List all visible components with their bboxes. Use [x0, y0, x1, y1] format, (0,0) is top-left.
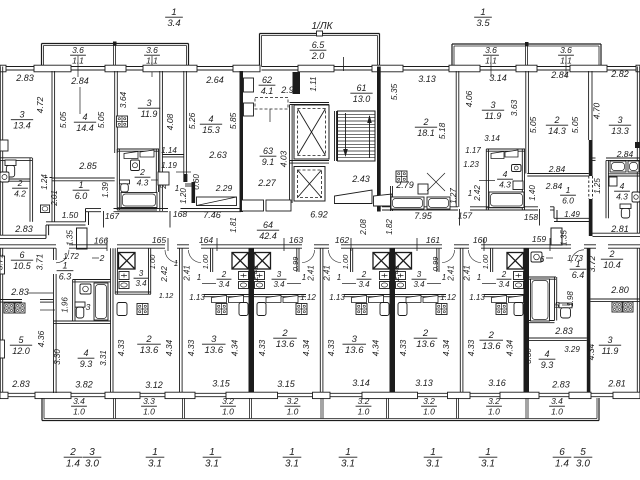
svg-text:2.43: 2.43: [351, 174, 370, 184]
svg-text:4.33: 4.33: [466, 339, 476, 356]
svg-text:3.64: 3.64: [118, 91, 128, 108]
svg-text:7.46: 7.46: [203, 210, 221, 220]
svg-text:3.4: 3.4: [135, 279, 147, 288]
svg-text:7.95: 7.95: [414, 211, 433, 221]
svg-text:6.4: 6.4: [572, 270, 585, 280]
svg-text:11.9: 11.9: [485, 111, 502, 121]
svg-text:4: 4: [83, 348, 88, 358]
svg-text:1: 1: [78, 180, 83, 190]
svg-text:4.06: 4.06: [464, 90, 474, 107]
svg-text:2: 2: [608, 249, 614, 259]
svg-text:1.00: 1.00: [481, 254, 490, 269]
svg-text:5.85: 5.85: [228, 112, 238, 129]
svg-text:3: 3: [352, 334, 358, 345]
svg-text:161: 161: [426, 235, 440, 245]
svg-text:1.11: 1.11: [309, 77, 318, 92]
svg-text:2.84: 2.84: [616, 149, 634, 159]
svg-text:61: 61: [356, 83, 366, 93]
svg-text:2.41: 2.41: [463, 265, 472, 282]
svg-text:3.0: 3.0: [576, 459, 590, 470]
svg-text:2.41: 2.41: [323, 265, 332, 282]
svg-text:6.0: 6.0: [75, 191, 88, 201]
svg-text:2: 2: [422, 117, 428, 127]
svg-text:4.08: 4.08: [165, 113, 175, 130]
svg-text:2.83: 2.83: [15, 73, 34, 83]
svg-text:2: 2: [99, 253, 105, 263]
svg-text:0.99: 0.99: [291, 256, 300, 271]
svg-text:2.08: 2.08: [359, 219, 368, 236]
svg-text:2.83: 2.83: [554, 326, 573, 336]
svg-text:3: 3: [139, 269, 144, 278]
svg-text:5: 5: [555, 300, 560, 310]
svg-text:1.24: 1.24: [40, 174, 49, 190]
svg-text:3.3: 3.3: [143, 396, 155, 406]
svg-text:3.2: 3.2: [488, 396, 500, 406]
svg-text:1: 1: [566, 185, 571, 195]
svg-text:14.3: 14.3: [548, 126, 566, 136]
svg-text:3.13: 3.13: [415, 378, 433, 388]
svg-text:4.70: 4.70: [592, 102, 602, 119]
svg-text:1.23: 1.23: [463, 160, 479, 169]
svg-text:3.4: 3.4: [73, 396, 85, 406]
svg-text:1: 1: [174, 259, 178, 268]
svg-text:1.13: 1.13: [329, 293, 345, 302]
svg-text:3: 3: [86, 302, 91, 312]
svg-text:3: 3: [607, 335, 612, 345]
svg-text:6.3: 6.3: [59, 271, 72, 281]
svg-text:2.41: 2.41: [307, 265, 316, 282]
svg-text:3.4: 3.4: [218, 280, 230, 289]
svg-text:3.14: 3.14: [484, 134, 500, 143]
svg-text:2.42: 2.42: [251, 265, 260, 282]
svg-text:62: 62: [262, 75, 272, 85]
svg-text:1.0: 1.0: [73, 406, 85, 416]
svg-text:3: 3: [490, 100, 495, 110]
svg-text:5.18: 5.18: [437, 122, 447, 139]
svg-text:1: 1: [480, 7, 485, 18]
svg-text:2.83: 2.83: [14, 224, 33, 234]
svg-text:1.12: 1.12: [159, 291, 174, 300]
svg-text:6: 6: [540, 254, 545, 264]
svg-text:2: 2: [17, 178, 23, 188]
svg-text:4: 4: [544, 349, 549, 359]
svg-text:3.16: 3.16: [488, 378, 506, 388]
svg-text:3.2: 3.2: [222, 396, 234, 406]
svg-text:1: 1: [430, 447, 436, 458]
svg-text:2.84: 2.84: [550, 70, 569, 80]
svg-text:3.29: 3.29: [564, 345, 580, 354]
svg-text:11.9: 11.9: [602, 346, 619, 356]
svg-text:1: 1: [575, 259, 580, 269]
svg-text:3.1: 3.1: [148, 459, 162, 470]
svg-text:1.17: 1.17: [465, 146, 481, 155]
svg-text:3.6: 3.6: [485, 45, 497, 55]
svg-text:4.03: 4.03: [279, 150, 289, 167]
svg-text:3.0: 3.0: [85, 459, 99, 470]
svg-text:4: 4: [82, 112, 87, 122]
svg-text:1.19: 1.19: [161, 161, 177, 170]
svg-text:4.3: 4.3: [616, 191, 628, 201]
svg-text:3.30: 3.30: [53, 349, 62, 365]
svg-text:5.05: 5.05: [58, 111, 68, 128]
svg-text:6.92: 6.92: [310, 210, 328, 220]
svg-text:2.41: 2.41: [183, 265, 192, 282]
svg-text:3.14: 3.14: [489, 73, 507, 83]
svg-text:158: 158: [524, 212, 538, 222]
svg-text:2.80: 2.80: [610, 285, 629, 295]
svg-text:13.3: 13.3: [611, 126, 629, 136]
svg-text:4.33: 4.33: [116, 339, 126, 356]
svg-text:3.4: 3.4: [358, 280, 370, 289]
svg-text:2.41: 2.41: [447, 265, 456, 282]
svg-text:3.4: 3.4: [498, 280, 510, 289]
svg-text:3.4: 3.4: [551, 396, 563, 406]
svg-text:4: 4: [620, 181, 625, 191]
svg-text:4: 4: [208, 114, 213, 124]
svg-text:2.29: 2.29: [215, 183, 233, 193]
svg-text:0.99: 0.99: [431, 256, 440, 271]
svg-text:3.6: 3.6: [560, 45, 572, 55]
svg-text:4.34: 4.34: [505, 339, 515, 356]
svg-text:12.0: 12.0: [12, 346, 30, 356]
svg-text:11.9: 11.9: [141, 109, 158, 119]
svg-text:9.3: 9.3: [541, 360, 554, 370]
svg-text:3.12: 3.12: [145, 380, 163, 390]
svg-text:1.0: 1.0: [287, 406, 299, 416]
svg-text:3.2: 3.2: [287, 396, 299, 406]
svg-text:4: 4: [503, 169, 508, 179]
svg-text:4.36: 4.36: [36, 330, 46, 347]
svg-text:4.33: 4.33: [257, 339, 267, 356]
svg-text:3: 3: [211, 334, 217, 345]
svg-text:6: 6: [19, 250, 24, 260]
svg-text:5.05: 5.05: [570, 116, 580, 133]
svg-text:3.5: 3.5: [476, 18, 490, 29]
svg-text:1.4: 1.4: [555, 459, 569, 470]
svg-text:13.0: 13.0: [353, 94, 371, 104]
svg-text:5.05: 5.05: [528, 116, 538, 133]
svg-text:1: 1: [209, 447, 215, 458]
svg-text:2.42: 2.42: [392, 265, 401, 282]
svg-text:1: 1: [468, 189, 472, 198]
svg-text:9.1: 9.1: [262, 157, 275, 167]
svg-text:4.33: 4.33: [326, 339, 336, 356]
svg-text:2.27: 2.27: [257, 178, 277, 188]
svg-text:163: 163: [289, 235, 303, 245]
svg-text:3.72: 3.72: [587, 255, 597, 272]
svg-text:1: 1: [289, 447, 295, 458]
svg-text:160: 160: [473, 235, 487, 245]
svg-text:4.33: 4.33: [398, 339, 408, 356]
svg-text:13.4: 13.4: [13, 120, 31, 130]
svg-text:1.00: 1.00: [341, 254, 350, 269]
svg-text:168: 168: [173, 209, 187, 219]
svg-text:1.0: 1.0: [222, 406, 234, 416]
svg-text:15.3: 15.3: [202, 125, 220, 135]
svg-text:1.0: 1.0: [488, 406, 500, 416]
svg-text:1.12: 1.12: [440, 293, 456, 302]
svg-text:2.85: 2.85: [78, 161, 98, 171]
svg-text:3.71: 3.71: [0, 253, 5, 270]
svg-text:162: 162: [335, 235, 349, 245]
svg-text:4.3: 4.3: [137, 177, 149, 187]
svg-text:3: 3: [417, 270, 422, 279]
svg-text:6: 6: [559, 447, 565, 458]
svg-text:1: 1: [175, 184, 179, 193]
svg-text:1.40: 1.40: [528, 185, 537, 201]
svg-text:4.34: 4.34: [230, 339, 240, 356]
svg-text:2.84: 2.84: [70, 76, 89, 86]
svg-text:1: 1: [345, 447, 351, 458]
svg-text:3: 3: [89, 447, 95, 458]
svg-text:159: 159: [532, 234, 546, 244]
svg-text:4.34: 4.34: [164, 339, 174, 356]
svg-text:1/ЛК: 1/ЛК: [311, 21, 333, 32]
svg-text:1.20: 1.20: [179, 188, 188, 204]
svg-text:1: 1: [62, 261, 67, 271]
svg-text:1.4: 1.4: [66, 459, 80, 470]
svg-text:3.1: 3.1: [285, 459, 299, 470]
svg-text:3.30: 3.30: [524, 348, 533, 364]
svg-text:1.98: 1.98: [566, 291, 575, 307]
svg-text:14.4: 14.4: [76, 123, 94, 133]
svg-text:4.3: 4.3: [499, 179, 511, 189]
svg-text:4.34: 4.34: [586, 343, 596, 360]
svg-text:1.35: 1.35: [66, 230, 75, 246]
svg-text:3.82: 3.82: [75, 380, 93, 390]
svg-text:18.1: 18.1: [417, 128, 435, 138]
svg-text:2: 2: [221, 270, 227, 279]
svg-text:2: 2: [145, 334, 152, 345]
svg-text:3.63: 3.63: [509, 99, 519, 116]
svg-text:2.83: 2.83: [11, 379, 30, 389]
svg-text:5.05: 5.05: [96, 111, 106, 128]
svg-text:2.82: 2.82: [610, 69, 629, 79]
svg-text:2.0: 2.0: [311, 51, 325, 61]
svg-text:157: 157: [458, 211, 472, 221]
svg-text:3.6: 3.6: [146, 45, 158, 55]
svg-text:1: 1: [197, 273, 201, 282]
svg-text:167: 167: [105, 211, 119, 221]
svg-text:1.50: 1.50: [62, 210, 79, 220]
svg-text:3.2: 3.2: [423, 396, 435, 406]
svg-text:1.0: 1.0: [551, 406, 563, 416]
svg-text:3.71: 3.71: [35, 253, 45, 270]
svg-text:64: 64: [263, 220, 273, 230]
svg-text:4.34: 4.34: [301, 339, 311, 356]
svg-text:3: 3: [19, 110, 24, 120]
svg-text:164: 164: [199, 235, 213, 245]
svg-text:13.6: 13.6: [276, 339, 295, 350]
svg-text:2: 2: [139, 167, 145, 177]
svg-text:1.00: 1.00: [201, 254, 210, 269]
svg-text:2: 2: [69, 447, 76, 458]
svg-text:1.0: 1.0: [423, 406, 435, 416]
svg-text:1: 1: [485, 447, 491, 458]
svg-text:1.12: 1.12: [300, 293, 316, 302]
svg-text:10.5: 10.5: [13, 261, 32, 271]
svg-text:2: 2: [422, 328, 429, 339]
svg-text:1.39: 1.39: [101, 182, 110, 198]
svg-text:2.84: 2.84: [545, 181, 563, 191]
svg-text:2.81: 2.81: [610, 224, 629, 234]
svg-text:13.6: 13.6: [345, 345, 364, 356]
svg-text:2.64: 2.64: [205, 75, 224, 85]
svg-text:0.60: 0.60: [192, 174, 201, 190]
svg-text:3: 3: [617, 115, 622, 125]
svg-text:3.15: 3.15: [277, 379, 296, 389]
svg-text:1: 1: [337, 273, 341, 282]
svg-text:1.27: 1.27: [449, 188, 458, 204]
svg-text:2.83: 2.83: [10, 287, 29, 297]
svg-text:13.6: 13.6: [140, 345, 159, 356]
svg-text:2.84: 2.84: [548, 164, 566, 174]
svg-text:3.1: 3.1: [205, 459, 219, 470]
svg-text:2.42: 2.42: [473, 185, 482, 202]
svg-text:2: 2: [553, 115, 559, 125]
svg-text:3.2: 3.2: [358, 396, 370, 406]
svg-text:13.6: 13.6: [205, 345, 224, 356]
svg-text:1: 1: [152, 447, 158, 458]
svg-text:1.82: 1.82: [385, 219, 394, 235]
svg-text:42.4: 42.4: [259, 231, 277, 241]
svg-text:1.96: 1.96: [61, 297, 70, 313]
svg-text:5.26: 5.26: [187, 112, 197, 129]
svg-text:2.42: 2.42: [160, 266, 169, 283]
svg-text:1.49: 1.49: [564, 210, 580, 219]
svg-text:3: 3: [146, 98, 151, 108]
svg-text:4.34: 4.34: [441, 339, 451, 356]
svg-text:3.1: 3.1: [481, 459, 495, 470]
svg-text:9.3: 9.3: [80, 359, 93, 369]
svg-text:3.4: 3.4: [167, 18, 180, 29]
svg-text:3.1: 3.1: [426, 459, 440, 470]
svg-text:1.13: 1.13: [189, 293, 205, 302]
svg-text:3.4: 3.4: [413, 280, 425, 289]
svg-text:1.35: 1.35: [560, 230, 569, 246]
svg-text:2: 2: [281, 328, 288, 339]
svg-text:1.25: 1.25: [593, 178, 602, 194]
svg-text:4.2: 4.2: [14, 188, 26, 198]
svg-text:2.01: 2.01: [50, 190, 59, 207]
svg-text:166: 166: [94, 236, 108, 246]
svg-text:3.1: 3.1: [341, 459, 355, 470]
svg-text:6.5: 6.5: [312, 40, 326, 50]
svg-text:1: 1: [477, 273, 481, 282]
svg-text:13.6: 13.6: [416, 339, 435, 350]
svg-text:3.14: 3.14: [352, 378, 370, 388]
svg-text:10.4: 10.4: [603, 260, 621, 270]
svg-text:2.63: 2.63: [208, 150, 227, 160]
svg-text:2.81: 2.81: [607, 379, 626, 389]
svg-text:3.13: 3.13: [418, 74, 436, 84]
svg-text:1.00: 1.00: [148, 254, 157, 269]
svg-text:165: 165: [152, 235, 166, 245]
svg-text:3: 3: [277, 270, 282, 279]
svg-text:5.35: 5.35: [389, 83, 399, 100]
svg-text:2.97: 2.97: [280, 85, 300, 95]
svg-text:6.0: 6.0: [562, 195, 574, 205]
svg-text:4.34: 4.34: [371, 339, 381, 356]
svg-text:63: 63: [263, 146, 273, 156]
svg-text:13.6: 13.6: [482, 341, 501, 352]
svg-text:4.33: 4.33: [186, 339, 196, 356]
svg-text:3.4: 3.4: [273, 280, 285, 289]
svg-text:2.83: 2.83: [551, 380, 570, 390]
svg-text:2: 2: [488, 330, 495, 341]
svg-text:1.14: 1.14: [161, 146, 177, 155]
svg-text:3.6: 3.6: [72, 45, 84, 55]
svg-text:1.81: 1.81: [229, 217, 238, 233]
svg-text:2: 2: [501, 270, 507, 279]
svg-text:1: 1: [171, 7, 176, 18]
svg-text:2: 2: [361, 270, 367, 279]
svg-text:4.72: 4.72: [35, 96, 45, 113]
svg-text:1.0: 1.0: [358, 406, 370, 416]
svg-text:3.31: 3.31: [99, 350, 108, 366]
svg-text:1.13: 1.13: [469, 293, 485, 302]
svg-text:4.1: 4.1: [261, 86, 274, 96]
svg-text:3.15: 3.15: [212, 379, 231, 389]
svg-text:5: 5: [580, 447, 586, 458]
svg-text:1.0: 1.0: [143, 406, 155, 416]
